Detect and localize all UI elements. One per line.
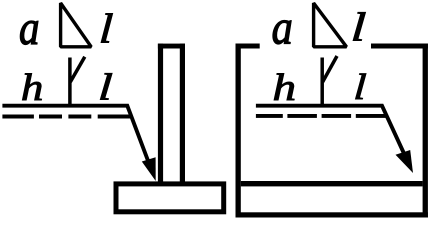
label h (left) (21, 67, 44, 109)
label l row2 (right) (353, 66, 368, 107)
fillet weld triangle symbol (left) (61, 3, 92, 47)
svg-text:l: l (97, 67, 113, 108)
vertical plate of T-joint (left) (158, 44, 185, 183)
weld symbol fork branch (left) (70, 57, 85, 82)
label l row1 (right) (350, 4, 367, 49)
weld symbol fork stem (left) (68, 58, 72, 107)
weld symbol fork stem (right) (320, 58, 324, 107)
label h (right) (273, 67, 297, 109)
svg-text:h: h (273, 67, 297, 109)
svg-text:a: a (272, 0, 293, 54)
enclosing box plate (right) (236, 44, 428, 218)
reference line with arrow bend (left) (2, 106, 148, 162)
reference line with arrow bend (right) (256, 106, 404, 154)
horizontal base plate (left) (116, 184, 224, 212)
dashed identification line (right) (256, 114, 388, 118)
dashed identification line (left) (2, 115, 131, 119)
arrowhead (left) (142, 157, 156, 181)
fillet weld triangle symbol (right) (314, 3, 347, 47)
label a (right) (272, 0, 293, 54)
bottom plate line inside box (right) (241, 181, 423, 186)
label a (left) (19, 1, 40, 55)
label l row2 (left) (97, 67, 113, 108)
weld symbol fork branch (right) (323, 56, 337, 82)
label l row1 (left) (98, 5, 114, 52)
arrowhead (right) (396, 150, 414, 173)
svg-text:a: a (19, 1, 40, 55)
svg-text:h: h (21, 67, 44, 109)
